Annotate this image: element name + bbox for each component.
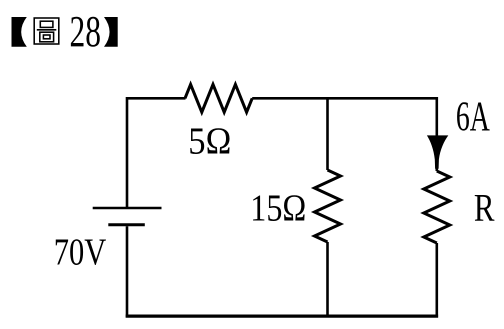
svg-text:28: 28 <box>70 6 102 56</box>
title character 圖 <box>34 18 59 44</box>
title bracket 】 <box>104 17 118 47</box>
node top junction (middle branch taps top wire) <box>326 97 329 100</box>
wire left vertical lower (battery - down to bottom-left corner) <box>126 226 129 317</box>
svg-text:15Ω: 15Ω <box>250 187 306 229</box>
wire middle vertical lower <box>326 242 329 318</box>
node bottom junction (middle branch meets bottom rail) <box>326 315 329 318</box>
svg-text:70V: 70V <box>54 231 107 273</box>
wire top right segment (resistor 5Ω to top-right corner) <box>252 98 437 171</box>
svg-text:R: R <box>474 186 495 229</box>
wire left vertical upper (battery + to top-left corner) <box>127 98 186 208</box>
battery B1 long plate (+) <box>93 207 162 210</box>
svg-text:5Ω: 5Ω <box>188 121 231 163</box>
battery B1 short plate (-) <box>108 223 145 226</box>
resistor 5Ω (horizontal zigzag) <box>185 84 252 112</box>
resistor R (vertical zigzag, right branch) <box>424 171 450 243</box>
title bracket 【 <box>12 17 27 47</box>
resistor 15Ω (vertical zigzag, middle branch) <box>315 170 341 242</box>
svg-text:6A: 6A <box>456 95 490 141</box>
wire middle vertical upper <box>326 97 329 170</box>
wire right vertical lower <box>435 243 438 318</box>
wire bottom rail <box>126 315 438 318</box>
current arrow 6A (on right branch) <box>427 135 448 168</box>
